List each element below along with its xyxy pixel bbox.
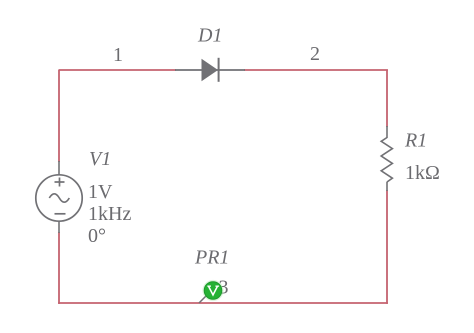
wire left side upper (58, 70, 60, 163)
wire net 1 top-left (59, 69, 176, 71)
probe V letter (209, 286, 218, 295)
voltage source V1 (36, 161, 82, 233)
svg-text:1kΩ: 1kΩ (405, 162, 440, 184)
resistor R1 (381, 126, 392, 191)
probe PR1 (199, 280, 224, 303)
wire net 2 top-right (244, 69, 388, 71)
wire left side lower (58, 232, 60, 304)
svg-text:0°: 0° (88, 225, 106, 247)
probe pointer (199, 296, 206, 303)
svg-text:1: 1 (113, 44, 123, 66)
svg-text:PR1: PR1 (194, 247, 229, 269)
probe body (204, 282, 222, 300)
svg-text:2: 2 (310, 43, 320, 65)
diode D1 (175, 58, 245, 82)
svg-text:1V: 1V (88, 181, 113, 203)
sine wave (49, 194, 69, 202)
svg-text:1kHz: 1kHz (88, 203, 131, 225)
minus sign (55, 213, 66, 215)
plus sign (55, 181, 65, 183)
probe halo (202, 280, 223, 301)
wire right side lower (386, 190, 388, 304)
svg-text:R1: R1 (404, 130, 427, 152)
wire right side upper (386, 70, 388, 128)
wire net 3 bottom (58, 302, 388, 304)
svg-text:D1: D1 (197, 25, 222, 47)
svg-text:V1: V1 (89, 148, 111, 170)
